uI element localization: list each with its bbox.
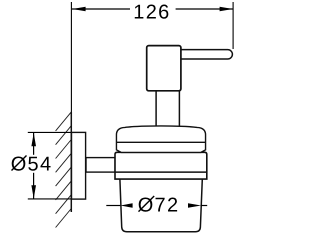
dimension Ø54 : extension lines — [28, 132, 72, 199]
wall hatching — [56, 112, 72, 228]
glass vessel — [120, 179, 202, 232]
spout — [181, 50, 233, 59]
holder ring — [115, 152, 207, 179]
dimension 126 : right extension line — [232, 2, 234, 49]
dimension Ø54 : slash of O — [12, 156, 27, 171]
dimension Ø54 : bottom arrow — [31, 185, 36, 198]
pump head — [147, 46, 181, 91]
wall plate (escutcheon) — [72, 132, 86, 199]
dimension Ø72 : line left — [106, 205, 120, 207]
pump neck — [156, 90, 179, 127]
dimension 126 : right arrow — [220, 7, 233, 12]
dimension Ø72 : line right — [201, 205, 207, 207]
dimension 126 : line — [72, 8, 233, 10]
holder ring seam — [115, 171, 206, 173]
svg-text:126: 126 — [133, 1, 170, 23]
holder arm — [86, 158, 115, 173]
cap assembly (dome + collar) — [116, 126, 205, 152]
dimension Ø72 : left arrow — [120, 203, 132, 207]
dimension 126 : left arrow — [72, 7, 85, 12]
dimension Ø72 : right arrow — [188, 203, 201, 208]
dimension Ø54 : line — [33, 133, 35, 199]
dimension Ø72 : slash of O — [139, 196, 155, 212]
wall line (also left extension of dim 126) — [70, 2, 72, 112]
dimension Ø54 : top arrow — [31, 133, 36, 146]
cap seam line (dome bottom) — [117, 141, 206, 143]
